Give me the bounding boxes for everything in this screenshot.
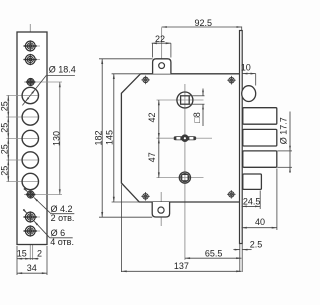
svg-text:2.5: 2.5 [250, 240, 263, 250]
svg-text:40: 40 [255, 217, 265, 227]
svg-text:130: 130 [52, 131, 62, 146]
svg-text:34: 34 [27, 263, 37, 273]
svg-text:92.5: 92.5 [195, 18, 213, 28]
svg-text:25: 25 [0, 166, 9, 176]
svg-text:Ø 18.4: Ø 18.4 [49, 65, 76, 75]
svg-text:22: 22 [155, 34, 165, 44]
svg-text:25: 25 [0, 101, 9, 111]
svg-text:15: 15 [17, 248, 27, 258]
svg-text:47: 47 [147, 152, 157, 162]
svg-text:182: 182 [94, 130, 104, 145]
svg-text:145: 145 [105, 130, 115, 145]
svg-text:25: 25 [0, 123, 9, 133]
svg-text:25: 25 [0, 144, 9, 154]
svg-text:65.5: 65.5 [205, 248, 223, 258]
svg-text:42: 42 [147, 112, 157, 122]
svg-text:24.5: 24.5 [243, 197, 261, 207]
svg-text:□8: □8 [192, 112, 202, 122]
svg-text:Ø 17.7: Ø 17.7 [278, 117, 288, 144]
svg-text:4 отв.: 4 отв. [50, 237, 74, 247]
svg-text:137: 137 [174, 261, 189, 271]
svg-text:2: 2 [37, 248, 42, 258]
svg-text:2 отв.: 2 отв. [51, 213, 75, 223]
svg-text:10: 10 [241, 63, 251, 73]
